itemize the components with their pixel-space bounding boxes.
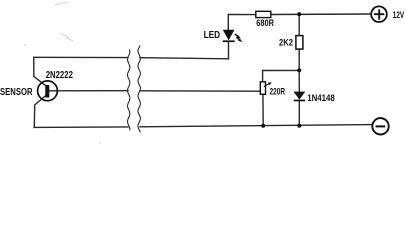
svg-text:680R: 680R — [256, 18, 274, 28]
svg-text:2K2: 2K2 — [279, 37, 293, 47]
svg-text:2N2222: 2N2222 — [46, 69, 73, 81]
svg-text:12V: 12V — [393, 10, 405, 20]
svg-text:220R: 220R — [270, 87, 286, 97]
svg-text:1N4148: 1N4148 — [307, 93, 335, 103]
svg-text:LED: LED — [204, 29, 221, 41]
svg-text:SENSOR: SENSOR — [0, 86, 33, 98]
